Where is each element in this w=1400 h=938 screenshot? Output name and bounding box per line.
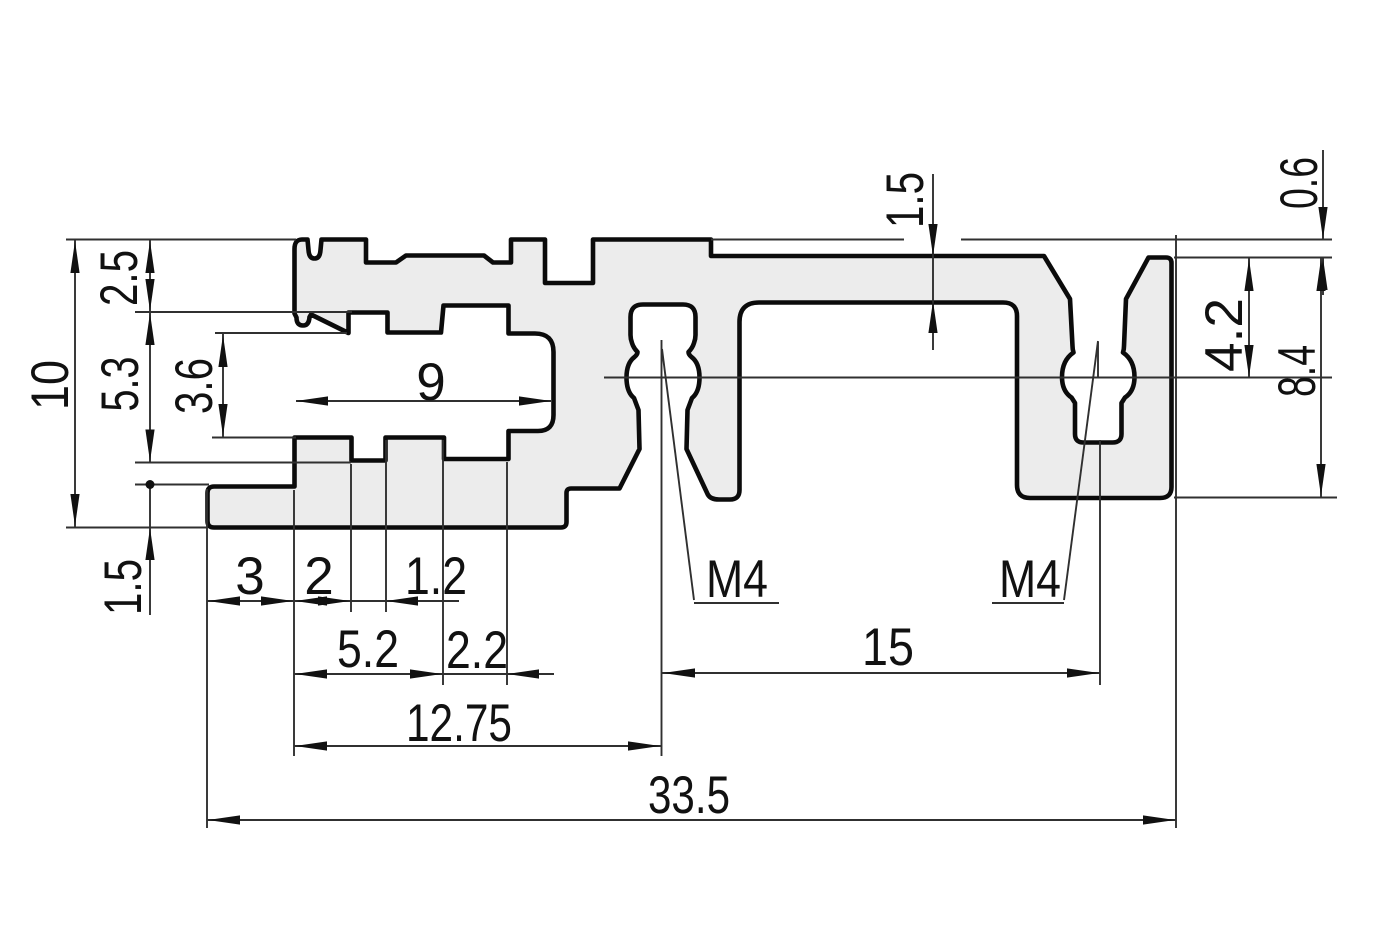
svg-text:5.2: 5.2	[337, 620, 399, 679]
svg-text:1.2: 1.2	[405, 547, 467, 606]
svg-text:5.3: 5.3	[91, 357, 150, 412]
dim line 0.6	[1322, 150, 1324, 239]
arrows 5.3	[145, 313, 154, 345]
arrows 8.4	[1316, 259, 1325, 291]
svg-text:2.5: 2.5	[90, 250, 149, 306]
arrows 3.6	[218, 335, 227, 367]
svg-text:12.75: 12.75	[406, 694, 512, 753]
ext vertical x=207	[206, 489, 208, 828]
extension line top y=239.5 right	[711, 239, 904, 241]
dim line 9 y=401	[296, 400, 551, 402]
svg-text:1.5: 1.5	[94, 559, 153, 615]
arrows 15	[663, 668, 695, 677]
dim line 1.5 top	[932, 174, 934, 350]
ext vertical x=1176	[1175, 235, 1177, 828]
arrows 10	[70, 241, 79, 273]
extension line y=484.5	[135, 484, 209, 486]
arrows 2.5	[145, 241, 154, 273]
svg-text:2.2: 2.2	[446, 621, 508, 680]
svg-text:4.2: 4.2	[1195, 298, 1254, 372]
svg-text:3: 3	[235, 547, 264, 606]
arrow 1.5 bottom-left	[145, 528, 154, 560]
extension line y=333	[215, 332, 347, 334]
arrows 3	[208, 596, 240, 605]
leader M4 right	[1064, 341, 1098, 600]
svg-text:10: 10	[21, 360, 80, 410]
svg-text:M4: M4	[706, 550, 768, 609]
ext vertical x=443	[442, 440, 444, 685]
dim line 3.6	[222, 333, 224, 438]
ext vertical x=507	[506, 462, 508, 685]
dim line 4.2	[1248, 258, 1250, 378]
ext vertical x=1100	[1099, 440, 1101, 685]
dim line 2.5 / 5.3	[149, 240, 151, 463]
svg-text:15: 15	[862, 618, 914, 677]
ext vertical x=386	[385, 440, 387, 612]
ext vertical x=351	[350, 464, 352, 612]
svg-text:1.5: 1.5	[876, 172, 935, 228]
dot 1.5 bottom-left	[146, 480, 155, 489]
svg-text:33.5: 33.5	[648, 766, 730, 825]
arrows 9	[296, 396, 328, 405]
arrows 1.5 top	[928, 224, 937, 256]
arrows 2	[295, 596, 327, 605]
dim row 15 y=673	[662, 672, 1100, 674]
svg-text:2: 2	[304, 547, 333, 606]
extension line y=437.5	[212, 437, 296, 439]
dim row y=601	[207, 600, 459, 602]
arrows 5.2	[295, 669, 327, 678]
extension line y=312	[135, 311, 352, 313]
extension line y=497 right	[1174, 497, 1337, 499]
extension line y=257.5 right	[1174, 257, 1332, 259]
svg-text:3.6: 3.6	[165, 358, 224, 414]
dim row 33.5 y=820	[207, 819, 1176, 821]
arrows 4.2	[1244, 259, 1253, 291]
extension line top y=239.5 left	[66, 239, 296, 241]
ext vertical x=661.5	[661, 340, 663, 756]
arrow 1.2	[386, 596, 418, 605]
center line y=377.5	[604, 377, 1332, 379]
svg-text:0.6: 0.6	[1270, 157, 1329, 209]
svg-text:8.4: 8.4	[1268, 345, 1327, 397]
arrow 2.2	[507, 669, 539, 678]
dim row y=674	[294, 673, 554, 675]
ext vertical x=294	[293, 490, 295, 756]
dim line 10	[74, 240, 76, 528]
dim row 12.75 y=746	[294, 745, 661, 747]
centerline stub right keyhole	[1097, 342, 1099, 378]
leader M4 left	[662, 349, 694, 600]
extension line bottom y=527.5	[66, 527, 207, 529]
dim line 8.4	[1320, 258, 1322, 497]
svg-text:9: 9	[416, 353, 445, 412]
extension line y=461	[135, 462, 351, 464]
arrows 0.6	[1318, 207, 1327, 239]
arrows 33.5	[208, 815, 240, 824]
svg-text:M4: M4	[999, 550, 1061, 609]
arrows 12.75	[295, 741, 327, 750]
profile outline (extrusion cross-section)	[208, 240, 1172, 528]
dim line 1.5 bottom-left	[149, 485, 151, 616]
